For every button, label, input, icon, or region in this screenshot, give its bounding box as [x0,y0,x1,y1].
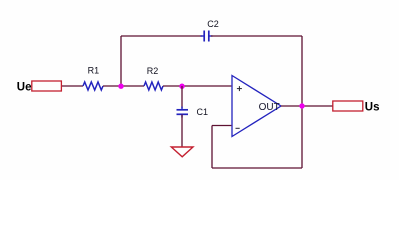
svg-text:C1: C1 [197,107,209,117]
wire feedback left vertical [211,126,213,169]
wire C1 branch upper [181,86,183,108]
resistor R1 [83,82,103,90]
svg-text:OUT: OUT [259,102,280,113]
port Ue [32,81,62,91]
svg-text:R1: R1 [88,66,100,76]
wire top feedback right segment [211,35,302,37]
pin + [237,86,242,91]
wire Ue port to R1 [61,85,83,87]
wire R1 to R2 [103,85,144,87]
capacitor C1 [177,107,189,118]
svg-text:R2: R2 [147,66,159,76]
wire op-amp output to Us port [281,105,333,107]
capacitor C2 [201,31,213,42]
wire right vertical (C2 to output node to bottom loop) [301,36,303,168]
wire node A vertical to top feedback [120,36,122,86]
port Us [333,101,363,111]
svg-text:C2: C2 [207,19,219,29]
wire top feedback left segment [121,35,202,37]
svg-text:Ue: Ue [17,82,32,94]
wire C1 to ground [181,115,183,148]
output node junction [299,103,304,108]
resistor R2 [144,82,163,90]
svg-text:Us: Us [365,102,380,114]
node B junction (C1 tap) [179,84,184,89]
wire feedback to inverting input [212,125,231,127]
node A junction [118,84,123,89]
wire feedback bottom [212,167,302,169]
pin - [236,127,240,129]
op-amp U1 [232,76,281,137]
wire R2 to op-amp + input [163,85,231,87]
ground [171,147,193,157]
